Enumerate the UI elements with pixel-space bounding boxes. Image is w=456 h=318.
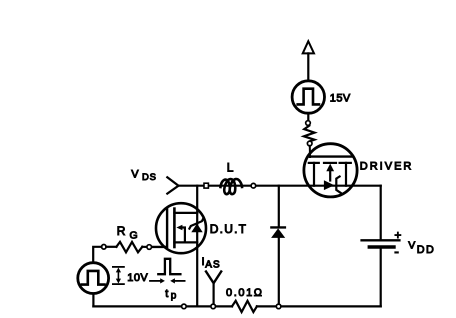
MOSFET Q2 DRIVER [304, 144, 357, 197]
svg-text:I: I [202, 256, 205, 268]
svg-text:0.01Ω: 0.01Ω [226, 287, 264, 299]
node [102, 245, 107, 250]
svg-text:15V: 15V [330, 93, 351, 105]
svg-text:R: R [117, 224, 126, 238]
body arrow [176, 225, 182, 230]
svg-text:DRIVER: DRIVER [360, 161, 414, 173]
wire [307, 53, 309, 80]
body diode of driver [324, 180, 334, 190]
svg-text:+: + [394, 228, 401, 242]
channel segment (body) [324, 162, 336, 164]
channel bar [173, 209, 176, 247]
wire [106, 246, 116, 248]
resistor 0.01 ohm [232, 301, 257, 312]
wire [309, 146, 311, 157]
annotation tp pulse width [158, 259, 180, 274]
node [251, 183, 256, 188]
node (terminal) [306, 121, 311, 126]
gate bar [308, 155, 352, 157]
resistor RG [116, 242, 142, 252]
svg-text:-: - [394, 243, 399, 259]
node [182, 304, 187, 309]
svg-text:DD: DD [417, 244, 435, 256]
wire [93, 247, 101, 263]
channel segment (source) [340, 162, 351, 164]
MOSFET Q1 D.U.T [156, 203, 206, 253]
node [147, 245, 152, 250]
gate bar + gate lead [152, 209, 168, 247]
resistor (driver gate) [304, 126, 315, 142]
current arrow IAS [206, 272, 221, 284]
drain stub [174, 212, 197, 214]
wire (bottom rail) [93, 305, 232, 307]
wire [278, 238, 280, 305]
node (terminal) [307, 141, 312, 146]
node arrow (15V supply, open triangle up) [303, 41, 314, 53]
pulse source V2 15V [292, 81, 324, 113]
svg-text:D.U.T: D.U.T [210, 222, 247, 236]
node [204, 183, 208, 188]
wire [92, 294, 94, 307]
svg-text:V: V [131, 168, 139, 180]
svg-text:V: V [408, 240, 415, 252]
wire (bottom rail right) [257, 305, 381, 307]
battery VDD plates [362, 239, 400, 241]
svg-text:L: L [227, 160, 234, 174]
wire (drain/source vertical) [196, 186, 198, 307]
wire (top rail) [179, 185, 381, 187]
wire [142, 246, 147, 248]
wire (clamp diode branch) [278, 186, 280, 228]
svg-text:DS: DS [142, 172, 157, 183]
diode D1 [271, 226, 285, 228]
svg-text:p: p [171, 291, 177, 302]
svg-text:10V: 10V [127, 272, 148, 284]
probe arrow VDS [167, 177, 178, 193]
svg-text:t: t [165, 288, 168, 300]
inductor L [221, 179, 243, 194]
channel segment (drain) [309, 162, 319, 164]
node [276, 304, 281, 309]
node [211, 304, 216, 309]
svg-text:AS: AS [205, 259, 220, 270]
body diode (zener) of D.U.T [191, 224, 202, 233]
svg-text:G: G [130, 229, 138, 241]
wire [307, 113, 309, 120]
source stub [174, 241, 197, 243]
annotation 10V amplitude [113, 266, 124, 268]
pulse source V1 (gate drive) [78, 263, 109, 294]
wire (battery branch) [380, 186, 382, 240]
